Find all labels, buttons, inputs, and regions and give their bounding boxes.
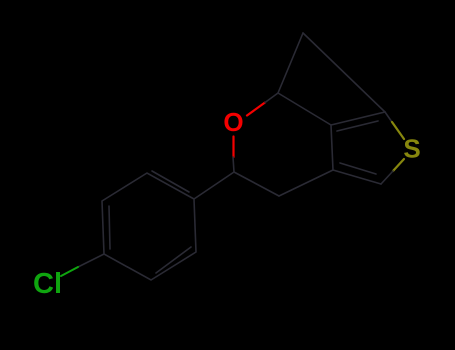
bond X to V_c [234,172,279,196]
bond O to V_a : red half [247,103,265,116]
bond V_f to V_h [331,125,333,170]
bond S to C_b : dark half [381,171,393,184]
benzene double bond R3-R4 [109,206,110,249]
benzene ring [102,173,196,280]
thiophene double bond V_h=C_b inner [340,163,376,174]
bond V_c to R1 [194,172,234,199]
bond V_a to V_top [278,33,303,93]
benzene double bond R5-R6 [156,247,191,273]
thiophene double bond C_t=V_f inner [337,121,378,131]
svg-text:S: S [403,134,420,164]
bond V_h to X [279,170,333,196]
bond S to C_b : olive half [393,159,404,171]
benzene double bond R1-R2 [152,171,189,192]
bond V_a to V_f [278,93,331,125]
bond R4 to Cl : dark half [78,254,104,267]
bond V_top to C_t [303,33,385,112]
bond O to V_c : dark half [233,157,234,172]
svg-text:Cl: Cl [33,268,62,300]
bond V_f to C_t [331,112,385,125]
bond C_t to S : olive half [392,122,404,139]
svg-text:O: O [223,107,243,137]
bond R4 to Cl : green half [61,267,78,276]
bond O to V_c : red half [232,137,234,158]
bond O to V_a : dark half [265,93,278,103]
wire [61,33,404,280]
bond C_t to S : dark half [385,112,394,125]
bond C_b to V_h [333,170,381,184]
